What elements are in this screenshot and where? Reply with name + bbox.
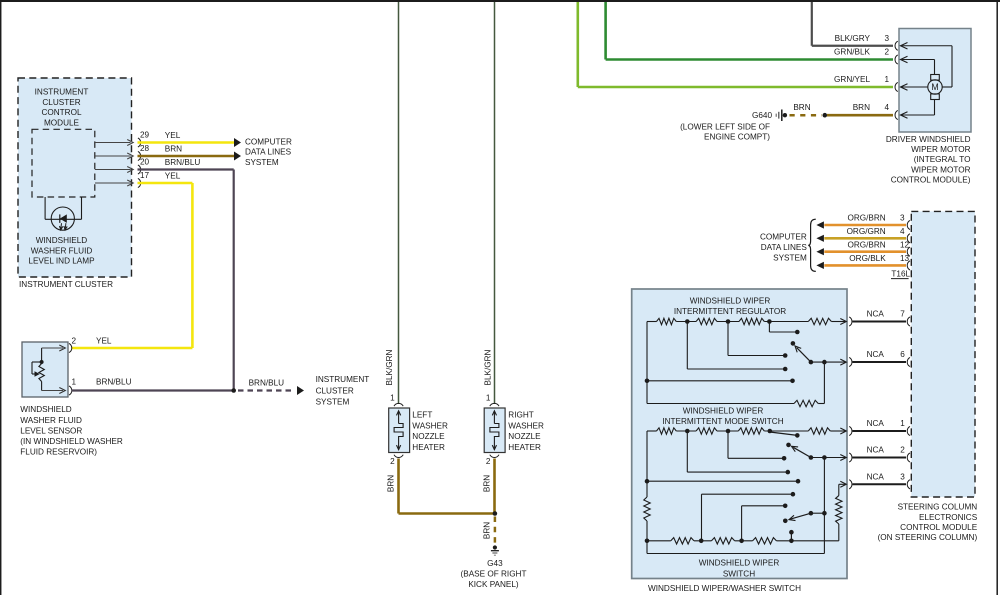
svg-text:NOZZLE: NOZZLE (412, 432, 445, 441)
svg-text:SYSTEM: SYSTEM (773, 254, 807, 263)
svg-text:STEERING COLUMN: STEERING COLUMN (898, 503, 978, 512)
svg-text:BRN: BRN (387, 475, 396, 492)
svg-text:BLK/GRY: BLK/GRY (835, 34, 871, 43)
svg-text:NCA: NCA (867, 472, 885, 481)
svg-text:2: 2 (390, 457, 395, 466)
svg-text:COMPUTER: COMPUTER (760, 233, 807, 242)
svg-text:DRIVER WINDSHIELD: DRIVER WINDSHIELD (886, 135, 971, 144)
svg-text:GRN/YEL: GRN/YEL (834, 75, 870, 84)
svg-text:G640: G640 (752, 111, 772, 120)
svg-text:INTERMITTENT MODE SWITCH: INTERMITTENT MODE SWITCH (662, 417, 783, 426)
svg-text:28: 28 (140, 144, 150, 153)
svg-text:4: 4 (900, 227, 905, 236)
svg-text:1: 1 (900, 419, 905, 428)
svg-text:G43: G43 (487, 559, 503, 568)
svg-text:2: 2 (486, 457, 491, 466)
svg-text:13: 13 (900, 254, 910, 263)
svg-text:YEL: YEL (96, 337, 112, 346)
svg-text:BLK/GRN: BLK/GRN (385, 349, 394, 385)
svg-text:NCA: NCA (867, 446, 885, 455)
svg-text:2: 2 (885, 48, 890, 57)
svg-text:(LOWER LEFT SIDE OF: (LOWER LEFT SIDE OF (680, 123, 770, 132)
svg-text:NCA: NCA (867, 350, 885, 359)
svg-text:NCA: NCA (867, 419, 885, 428)
svg-text:MODULE: MODULE (44, 118, 80, 127)
svg-text:3: 3 (900, 214, 905, 223)
svg-text:CONTROL MODULE): CONTROL MODULE) (891, 176, 971, 185)
svg-text:WIPER MOTOR: WIPER MOTOR (911, 145, 971, 154)
svg-text:YEL: YEL (165, 131, 181, 140)
svg-text:ENGINE COMPT): ENGINE COMPT) (704, 133, 770, 142)
svg-text:LEFT: LEFT (412, 411, 432, 420)
svg-text:WINDSHIELD WIPER/WASHER SWITCH: WINDSHIELD WIPER/WASHER SWITCH (648, 584, 801, 593)
svg-text:ORG/BLK: ORG/BLK (849, 254, 886, 263)
svg-text:CLUSTER: CLUSTER (42, 98, 80, 107)
svg-text:(INTEGRAL TO: (INTEGRAL TO (914, 155, 971, 164)
svg-text:3: 3 (885, 34, 890, 43)
svg-text:1: 1 (486, 394, 491, 403)
svg-text:(IN WINDSHIELD WASHER: (IN WINDSHIELD WASHER (20, 437, 123, 446)
svg-text:WASHER: WASHER (412, 421, 448, 430)
svg-text:17: 17 (140, 171, 150, 180)
svg-text:BRN: BRN (853, 103, 870, 112)
svg-text:INSTRUMENT: INSTRUMENT (35, 87, 89, 96)
svg-text:CLUSTER: CLUSTER (316, 386, 354, 395)
svg-text:INSTRUMENT: INSTRUMENT (316, 375, 370, 384)
svg-text:BRN: BRN (165, 145, 182, 154)
svg-text:(BASE OF RIGHT: (BASE OF RIGHT (461, 569, 527, 578)
svg-text:YEL: YEL (165, 172, 181, 181)
svg-text:BRN/BLU: BRN/BLU (165, 158, 201, 167)
svg-text:SYSTEM: SYSTEM (245, 158, 279, 167)
svg-text:ORG/BRN: ORG/BRN (847, 240, 885, 249)
svg-text:2: 2 (900, 446, 905, 455)
svg-text:CONTROL MODULE: CONTROL MODULE (900, 523, 978, 532)
svg-text:WASHER FLUID: WASHER FLUID (20, 416, 82, 425)
svg-text:WIPER MOTOR: WIPER MOTOR (911, 165, 971, 174)
svg-text:HEATER: HEATER (412, 443, 445, 452)
svg-text:RIGHT: RIGHT (508, 411, 533, 420)
svg-text:INTERMITTENT REGULATOR: INTERMITTENT REGULATOR (674, 307, 786, 316)
svg-text:DATA LINES: DATA LINES (245, 148, 292, 157)
svg-text:FLUID RESERVOIR): FLUID RESERVOIR) (20, 447, 97, 456)
svg-text:20: 20 (140, 158, 150, 167)
svg-text:LEVEL SENSOR: LEVEL SENSOR (20, 426, 82, 435)
svg-text:KICK PANEL): KICK PANEL) (468, 580, 519, 589)
svg-text:BRN: BRN (483, 475, 492, 492)
svg-text:WINDSHIELD: WINDSHIELD (36, 236, 87, 245)
svg-text:INSTRUMENT CLUSTER: INSTRUMENT CLUSTER (19, 280, 113, 289)
svg-text:HEATER: HEATER (508, 443, 541, 452)
svg-text:BRN: BRN (793, 103, 810, 112)
svg-text:3: 3 (900, 472, 905, 481)
svg-text:BLK/GRN: BLK/GRN (484, 349, 493, 385)
svg-text:GRN/BLK: GRN/BLK (834, 48, 870, 57)
svg-text:1: 1 (885, 75, 890, 84)
svg-text:M: M (931, 82, 938, 92)
svg-text:WINDSHIELD: WINDSHIELD (20, 405, 71, 414)
svg-text:COMPUTER: COMPUTER (245, 138, 292, 147)
svg-text:WASHER FLUID: WASHER FLUID (31, 246, 93, 255)
svg-text:7: 7 (900, 310, 905, 319)
svg-text:12: 12 (900, 240, 910, 249)
svg-text:BRN/BLU: BRN/BLU (249, 379, 285, 388)
svg-text:T16L: T16L (891, 270, 910, 279)
svg-text:SWITCH: SWITCH (723, 570, 755, 579)
svg-text:ORG/BRN: ORG/BRN (847, 214, 885, 223)
svg-text:ELECTRONICS: ELECTRONICS (919, 513, 978, 522)
svg-text:WINDSHIELD WIPER: WINDSHIELD WIPER (690, 297, 771, 306)
svg-text:SYSTEM: SYSTEM (316, 397, 350, 406)
svg-text:CONTROL: CONTROL (41, 108, 81, 117)
svg-text:2: 2 (72, 337, 77, 346)
svg-text:(ON STEERING COLUMN): (ON STEERING COLUMN) (878, 533, 978, 542)
svg-text:NOZZLE: NOZZLE (508, 432, 541, 441)
svg-text:WINDSHIELD WIPER: WINDSHIELD WIPER (699, 559, 780, 568)
svg-text:NCA: NCA (867, 310, 885, 319)
svg-text:1: 1 (72, 378, 77, 387)
svg-text:BRN: BRN (483, 522, 492, 539)
svg-text:LEVEL IND LAMP: LEVEL IND LAMP (28, 257, 95, 266)
svg-text:WINDSHIELD WIPER: WINDSHIELD WIPER (683, 407, 764, 416)
svg-text:WASHER: WASHER (508, 421, 544, 430)
svg-text:4: 4 (885, 103, 890, 112)
svg-text:DATA LINES: DATA LINES (761, 243, 808, 252)
svg-text:29: 29 (140, 131, 150, 140)
svg-text:1: 1 (390, 394, 395, 403)
svg-text:BRN/BLU: BRN/BLU (96, 378, 132, 387)
svg-text:ORG/GRN: ORG/GRN (847, 227, 886, 236)
svg-text:6: 6 (900, 350, 905, 359)
